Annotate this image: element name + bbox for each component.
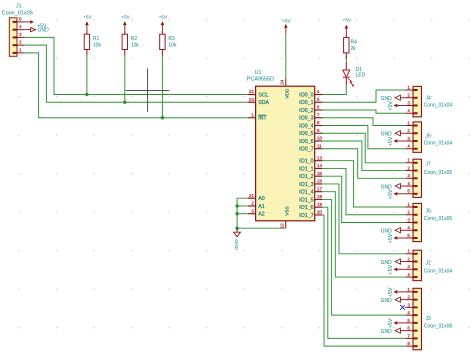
ground flag at J3 pin 2 <box>381 297 406 304</box>
svg-text:+5V: +5V <box>388 136 394 146</box>
junction SCL / R1 <box>85 93 88 96</box>
U1 pin 3 A2 <box>248 208 265 217</box>
wire net IO1_6 from U1 pin 19 to J3 pin 7 <box>322 207 405 338</box>
svg-text:+5V: +5V <box>388 318 394 328</box>
no-connect at J3 pin 3 <box>400 305 405 310</box>
wire U1 A2 to ground rail <box>237 213 248 215</box>
svg-text:IO1_6: IO1_6 <box>299 205 313 211</box>
U1 pin 12 VSS <box>280 206 290 228</box>
svg-text:R1: R1 <box>93 36 100 42</box>
ground flag at J7 pin 4 <box>381 183 406 190</box>
svg-text:+5V: +5V <box>159 14 169 20</box>
svg-text:IO1_3: IO1_3 <box>299 182 313 188</box>
ground flag at J2 pin 2 <box>381 259 406 266</box>
svg-text:12: 12 <box>280 223 285 228</box>
wire U1 A0 to ground rail <box>237 198 248 228</box>
power +5V at J1 pin 5 <box>25 20 47 29</box>
ground below U1 <box>233 228 240 250</box>
wire net SDA from J1 pin 2 to U1 pin 23 <box>25 45 248 102</box>
svg-text:J3: J3 <box>426 316 432 322</box>
U1 pin 24 VDD <box>280 79 290 99</box>
svg-text:+5V: +5V <box>342 18 352 24</box>
svg-text:J7: J7 <box>426 162 432 168</box>
wire R3 pull-up leg to INT <box>161 55 163 117</box>
svg-text:A0: A0 <box>258 196 265 202</box>
svg-text:24: 24 <box>280 79 285 84</box>
U1 pin 2 A1 <box>248 201 265 210</box>
U1 pin 7 IO0_3 <box>299 112 322 121</box>
wire net IO1_2 from U1 pin 15 to J6 pin 3 <box>322 176 405 222</box>
svg-text:10: 10 <box>317 136 322 141</box>
U1 pin 23 SDA <box>248 97 270 106</box>
ground flag at J4 pin 2 <box>381 95 406 102</box>
power +5V at J4 pin 3 <box>388 101 405 111</box>
svg-text:10k: 10k <box>131 43 140 49</box>
U1 pin 14 IO1_1 <box>299 163 322 172</box>
svg-text:IO0_3: IO0_3 <box>299 116 313 122</box>
wire net IO1_7 from U1 pin 20 to J3 pin 8 <box>322 215 405 346</box>
svg-text:23: 23 <box>249 97 254 102</box>
svg-text:13: 13 <box>317 155 322 160</box>
svg-text:IO1_0: IO1_0 <box>299 159 313 165</box>
wire net INT from J1 pin 1 to U1 pin 1 <box>25 53 248 118</box>
svg-text:20: 20 <box>317 210 322 215</box>
svg-text:IO1_4: IO1_4 <box>299 190 313 196</box>
svg-text:Conn_01x05: Conn_01x05 <box>2 10 33 16</box>
wire R1 pull-up leg to SCL <box>86 55 88 94</box>
editor crosshair cursor <box>125 68 169 112</box>
svg-text:J5: J5 <box>426 134 432 140</box>
junction INT / R3 <box>161 116 164 119</box>
wire net IO0_6 from U1 pin 10 to J7 pin 2 <box>322 141 405 171</box>
power +5V above R4 <box>342 18 352 35</box>
svg-text:18: 18 <box>317 194 322 199</box>
U1 pin 10 IO0_6 <box>299 136 322 145</box>
svg-text:+5V: +5V <box>388 189 394 199</box>
svg-text:+5V: +5V <box>121 14 131 20</box>
power +5V above R2 <box>121 14 131 31</box>
svg-text:J6: J6 <box>426 209 432 215</box>
power +5V at J3 pin 1 <box>388 287 405 297</box>
wire U1 A1 to ground rail <box>237 205 248 207</box>
svg-text:16: 16 <box>317 179 322 184</box>
svg-text:IO0_0: IO0_0 <box>299 92 313 98</box>
svg-text:10k: 10k <box>168 43 177 49</box>
junction SDA / R2 <box>123 101 126 104</box>
svg-text:Conn_01x04: Conn_01x04 <box>424 140 453 146</box>
svg-text:15: 15 <box>317 171 322 176</box>
U1 pin 21 A0 <box>248 193 265 202</box>
wire net IO1_3 from U1 pin 16 to J2 pin 1 <box>322 184 405 254</box>
svg-text:PCA9555D: PCA9555D <box>247 76 274 82</box>
svg-text:J1: J1 <box>16 4 22 10</box>
svg-text:IO0_1: IO0_1 <box>299 100 313 106</box>
U1 pin 16 IO1_3 <box>299 179 322 188</box>
svg-text:IO0_5: IO0_5 <box>299 131 313 137</box>
resistor R3 10k pull-up <box>160 31 177 56</box>
svg-text:GND: GND <box>233 239 239 250</box>
U1 pin 1 INT <box>248 112 268 121</box>
svg-text:+5V: +5V <box>388 233 394 243</box>
svg-text:IO0_7: IO0_7 <box>299 147 313 153</box>
wire net IO0_5 from U1 pin 9 to J7 pin 1 <box>322 133 405 163</box>
connector J7 Conn_01x05 <box>405 158 452 198</box>
power +5V at J7 pin 5 <box>388 189 405 199</box>
junction VSS rail <box>235 227 238 230</box>
wire net IO0_2 from U1 pin 6 to J4 pin 4 <box>322 110 405 113</box>
svg-text:19: 19 <box>317 202 322 207</box>
U1 pin 8 IO0_4 <box>299 120 322 129</box>
U1 pin 13 IO1_0 <box>299 155 322 164</box>
svg-text:17: 17 <box>317 186 322 191</box>
U1 pin 9 IO0_5 <box>299 128 322 137</box>
resistor R4 2k <box>344 34 358 59</box>
U1 pin 22 SCL <box>248 89 269 98</box>
svg-text:IO1_1: IO1_1 <box>299 166 313 172</box>
wire net SCL from J1 pin 3 to U1 pin 22 <box>25 37 248 94</box>
U1 pin 19 IO1_6 <box>299 202 322 211</box>
connector J5 Conn_01x04 <box>405 120 452 152</box>
wire net IO0_1 from U1 pin 5 to J4 pin 1 <box>322 90 405 102</box>
svg-text:Conn_01x04: Conn_01x04 <box>424 268 453 274</box>
ground flag at J1 pin 4 <box>25 28 49 34</box>
svg-text:+5V: +5V <box>83 14 93 20</box>
resistor R1 10k pull-up <box>84 31 101 56</box>
svg-text:U1: U1 <box>255 70 262 76</box>
svg-text:LED: LED <box>356 73 366 79</box>
svg-text:GND: GND <box>381 298 393 304</box>
svg-text:Conn_01x05: Conn_01x05 <box>424 170 453 176</box>
wire +5V to U1 VDD pin 24 <box>285 34 287 79</box>
svg-text:A2: A2 <box>258 212 265 218</box>
connector J3 Conn_01x08 <box>405 287 452 350</box>
op-amp U1 PCA9555D I/O expander <box>247 70 315 221</box>
svg-text:+5V: +5V <box>388 101 394 111</box>
junction A1 rail <box>235 204 238 207</box>
svg-text:INT: INT <box>258 116 267 122</box>
svg-text:14: 14 <box>317 163 322 168</box>
power +5V above R1 <box>83 14 93 31</box>
power +5V at J2 pin 3 <box>388 265 405 275</box>
connector J6 Conn_01x05 <box>405 202 452 242</box>
wire net IO1_4 from U1 pin 17 to J2 pin 4 <box>322 192 405 277</box>
wire net IO0_0 from U1 pin 4 to LED D1 <box>322 85 346 94</box>
wire net IO1_0 from U1 pin 13 to J6 pin 1 <box>322 161 405 207</box>
svg-text:IO1_7: IO1_7 <box>299 213 313 219</box>
connector J4 Conn_01x04 <box>405 85 452 117</box>
svg-text:Conn_01x04: Conn_01x04 <box>424 102 453 108</box>
svg-text:2k: 2k <box>351 46 357 52</box>
svg-text:J2: J2 <box>426 261 432 267</box>
svg-text:+5V: +5V <box>388 265 394 275</box>
svg-text:21: 21 <box>249 193 254 198</box>
U1 pin 15 IO1_2 <box>299 171 322 180</box>
svg-text:Conn_01x05: Conn_01x05 <box>424 216 453 222</box>
svg-text:10k: 10k <box>93 43 102 49</box>
LED D1 <box>343 62 366 86</box>
svg-text:R2: R2 <box>131 36 138 42</box>
connector J1 Conn_01x05 <box>2 4 33 57</box>
svg-text:IO0_4: IO0_4 <box>299 123 313 129</box>
U1 pin 6 IO0_2 <box>299 105 322 114</box>
svg-text:IO0_6: IO0_6 <box>299 139 313 145</box>
wire net IO0_7 from U1 pin 11 to J7 pin 3 <box>322 149 405 179</box>
power +5V at J5 pin 3 <box>388 136 405 146</box>
resistor R2 10k pull-up <box>122 31 139 56</box>
connector J2 Conn_01x04 <box>405 249 452 281</box>
svg-text:SCL: SCL <box>258 92 268 98</box>
wire R2 pull-up leg to SDA <box>124 55 126 102</box>
U1 pin 11 IO0_7 <box>299 143 322 152</box>
svg-text:GND: GND <box>381 329 393 335</box>
wire net IO1_1 from U1 pin 14 to J6 pin 2 <box>322 168 405 214</box>
U1 pin 4 IO0_0 <box>299 89 322 98</box>
svg-text:GND: GND <box>38 28 50 34</box>
wire net IO1_5 from U1 pin 18 to J3 pin 4 <box>322 199 405 315</box>
wire net IO0_3 from U1 pin 7 to J5 pin 1 <box>322 118 405 126</box>
power +5V at J6 pin 5 <box>388 233 405 243</box>
U1 pin 20 IO1_7 <box>299 210 322 219</box>
ground flag at J5 pin 2 <box>381 131 406 138</box>
wire U1 VSS pin 12 to ground rail <box>237 227 286 229</box>
svg-text:A1: A1 <box>258 204 265 210</box>
svg-text:J4: J4 <box>426 95 432 101</box>
U1 pin 5 IO0_1 <box>299 97 322 106</box>
svg-text:SDA: SDA <box>258 100 269 106</box>
svg-text:R4: R4 <box>351 40 358 46</box>
svg-text:22: 22 <box>249 89 254 94</box>
power +5V above R3 <box>159 14 169 31</box>
svg-text:VSS: VSS <box>284 206 289 215</box>
svg-text:Conn_01x08: Conn_01x08 <box>424 324 453 330</box>
svg-text:IO1_5: IO1_5 <box>299 197 313 203</box>
junction A2 rail <box>235 212 238 215</box>
svg-text:VDD: VDD <box>284 88 289 99</box>
ground flag at J6 pin 4 <box>381 228 406 235</box>
svg-text:+5V: +5V <box>388 287 394 297</box>
wire R4 to D1 anode <box>345 56 347 63</box>
svg-text:IO1_2: IO1_2 <box>299 174 313 180</box>
svg-text:IO0_2: IO0_2 <box>299 108 313 114</box>
power +5V at J3 pin 5 <box>388 318 405 328</box>
svg-text:R3: R3 <box>168 36 175 42</box>
power +5V at U1 VDD <box>282 19 292 34</box>
wire net IO0_4 from U1 pin 8 to J5 pin 4 <box>322 126 405 149</box>
U1 pin 18 IO1_5 <box>299 194 322 203</box>
svg-text:+5V: +5V <box>282 19 292 25</box>
ground flag at J3 pin 6 <box>381 328 406 335</box>
U1 pin 17 IO1_4 <box>299 186 322 195</box>
svg-text:11: 11 <box>317 143 322 148</box>
